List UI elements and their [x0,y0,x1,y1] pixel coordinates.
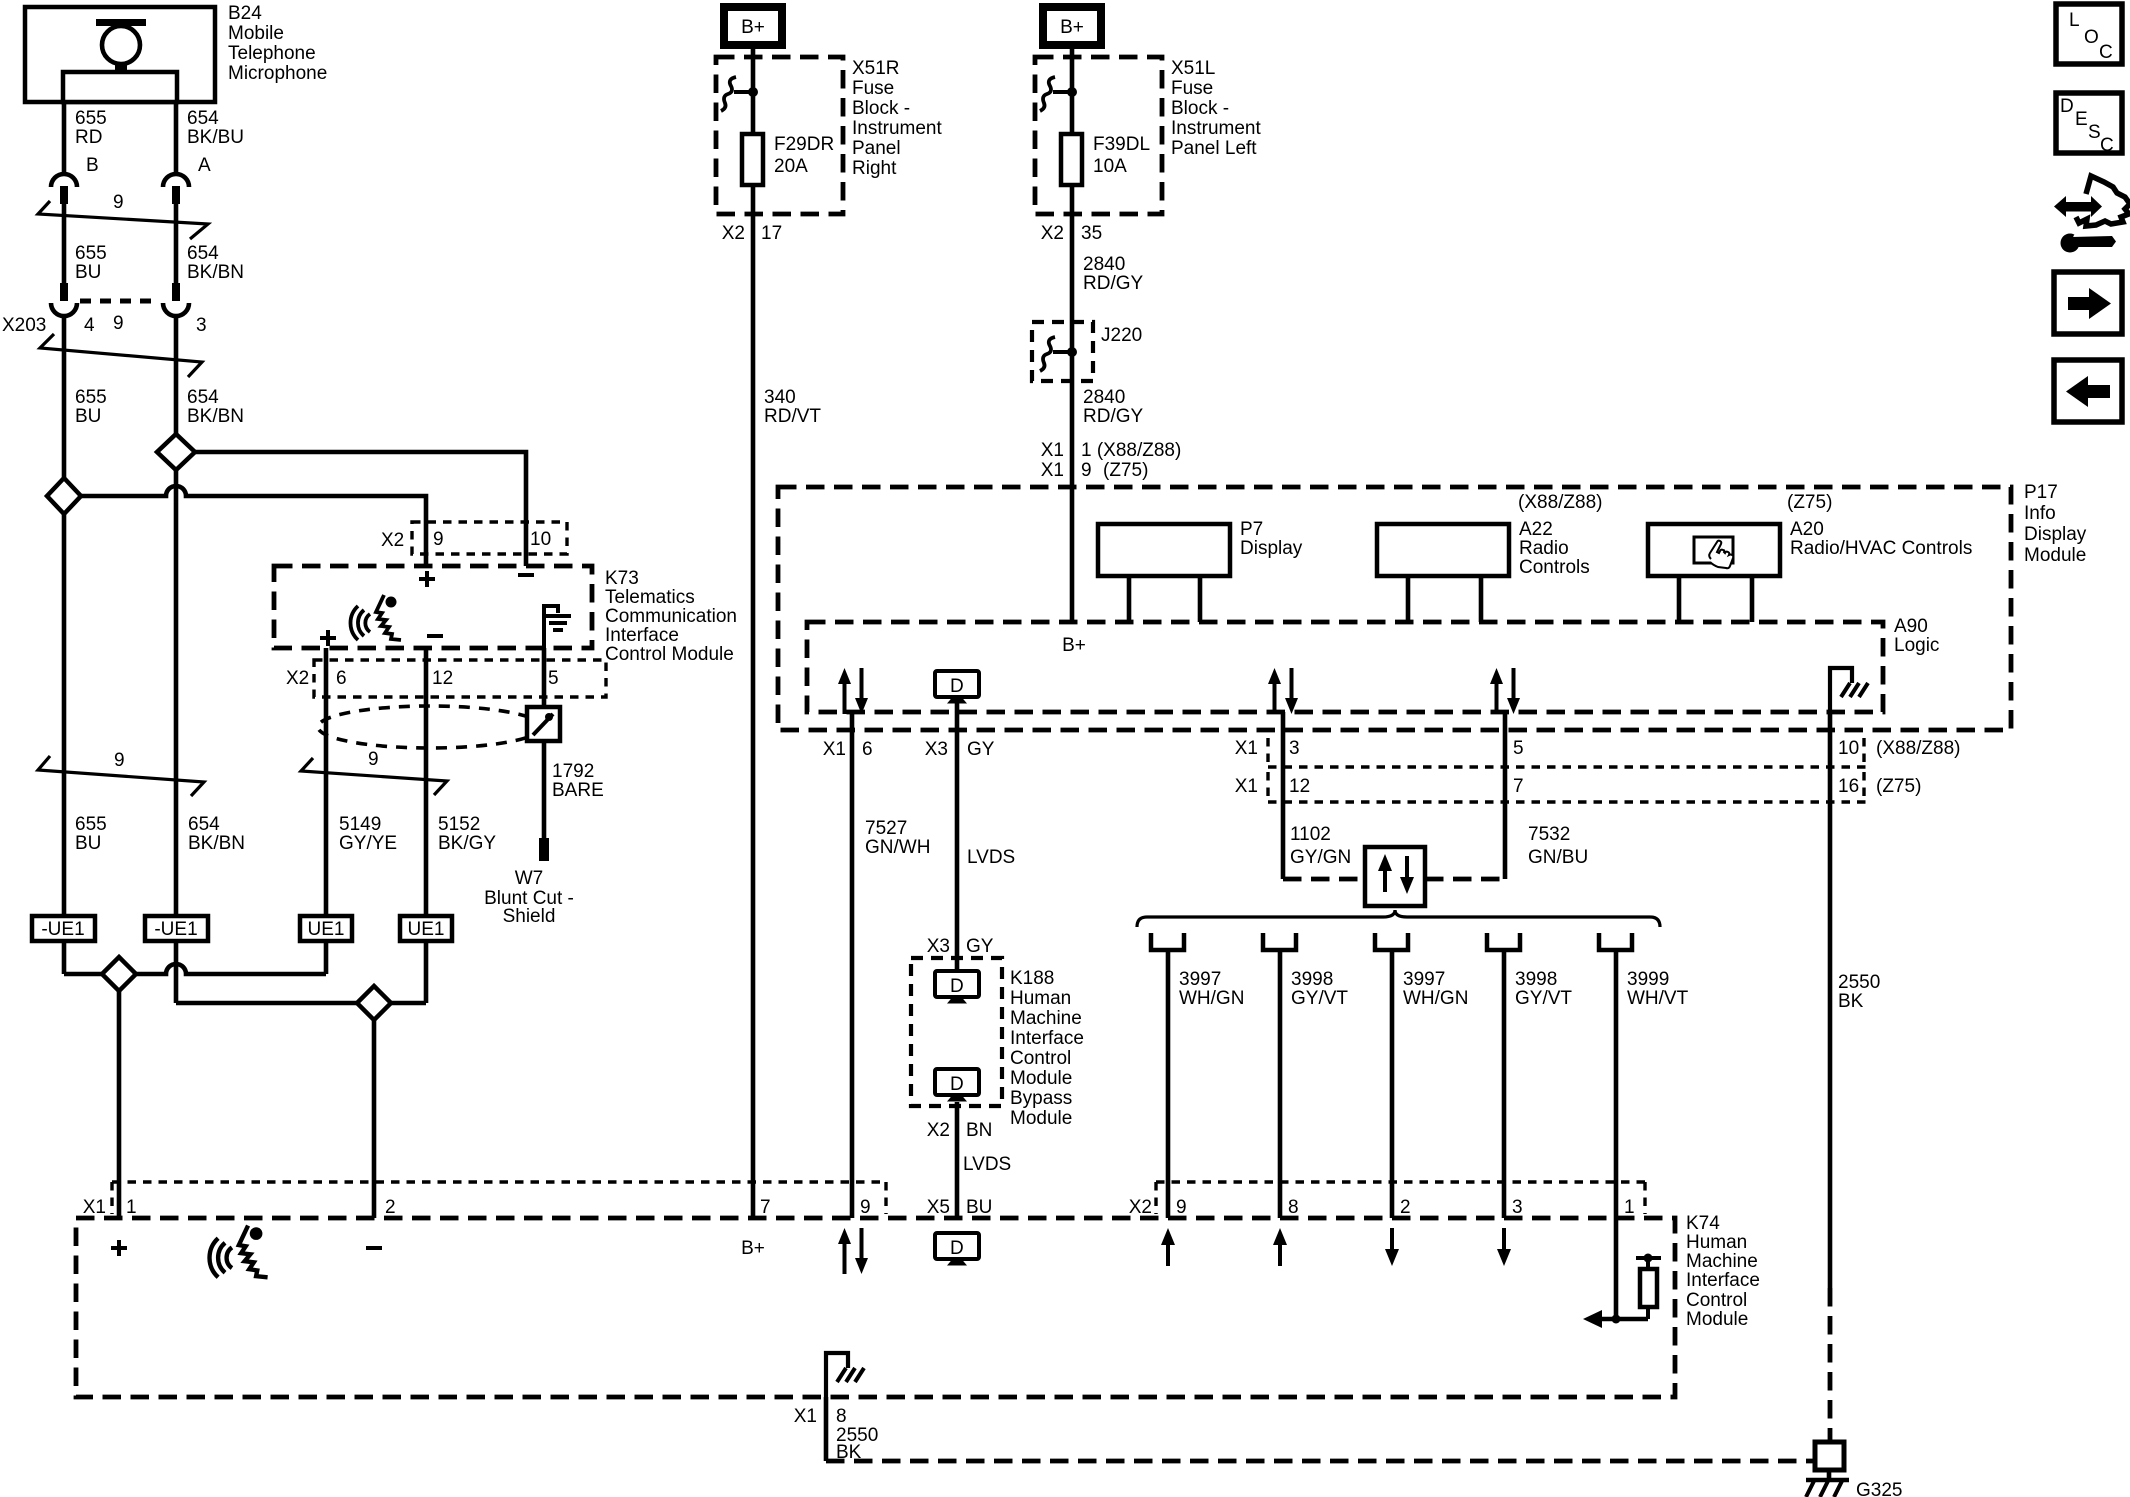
svg-text:Radio: Radio [1519,538,1569,559]
svg-text:BK/GY: BK/GY [438,833,496,854]
svg-text:Panel: Panel [852,138,901,159]
svg-text:X51L: X51L [1171,58,1215,79]
svg-text:654: 654 [187,243,219,264]
svg-text:Logic: Logic [1894,635,1939,656]
svg-text:O: O [2084,27,2099,48]
svg-text:9: 9 [433,529,444,550]
svg-text:WH/GN: WH/GN [1179,988,1244,1009]
svg-text:9: 9 [368,749,379,770]
svg-text:K188: K188 [1010,968,1054,989]
svg-text:B24: B24 [228,3,262,24]
svg-text:X3: X3 [925,739,948,760]
svg-text:X2: X2 [286,668,309,689]
svg-text:GN/WH: GN/WH [865,837,930,858]
svg-text:BU: BU [75,406,101,427]
svg-text:X51R: X51R [852,58,900,79]
svg-text:6: 6 [336,668,347,689]
svg-text:12: 12 [1289,776,1310,797]
svg-text:1792: 1792 [552,761,594,782]
svg-text:Controls: Controls [1519,557,1590,578]
svg-text:Telematics: Telematics [605,587,695,608]
svg-text:Microphone: Microphone [228,63,327,84]
svg-text:654: 654 [187,387,219,408]
svg-text:17: 17 [761,223,782,244]
svg-text:1: 1 [1624,1197,1635,1218]
svg-text:5152: 5152 [438,814,480,835]
svg-text:Module: Module [1010,1108,1072,1129]
svg-text:UE1: UE1 [408,919,445,940]
svg-text:F29DR: F29DR [774,134,834,155]
svg-text:Bypass: Bypass [1010,1088,1072,1109]
svg-text:Human: Human [1010,988,1071,1009]
svg-text:BARE: BARE [552,780,604,801]
svg-text:2550: 2550 [1838,972,1880,993]
svg-text:3997: 3997 [1179,969,1221,990]
svg-text:X1: X1 [1041,440,1064,461]
svg-text:LVDS: LVDS [963,1154,1011,1175]
svg-text:GY/GN: GY/GN [1290,847,1351,868]
svg-text:P17: P17 [2024,482,2058,503]
svg-text:A20: A20 [1790,519,1824,540]
svg-text:BK/BU: BK/BU [187,127,244,148]
svg-text:-UE1: -UE1 [41,919,84,940]
svg-text:K74: K74 [1686,1213,1720,1234]
svg-text:10: 10 [530,529,551,550]
svg-text:F39DL: F39DL [1093,134,1150,155]
svg-text:9: 9 [113,313,124,334]
svg-text:X2: X2 [722,223,745,244]
svg-text:20A: 20A [774,156,808,177]
svg-text:RD/GY: RD/GY [1083,406,1144,427]
svg-text:X3: X3 [927,936,950,957]
svg-text:5: 5 [548,668,559,689]
svg-text:Control: Control [1686,1290,1747,1311]
svg-text:RD/GY: RD/GY [1083,273,1144,294]
svg-text:Human: Human [1686,1232,1747,1253]
svg-text:655: 655 [75,243,107,264]
svg-text:7: 7 [1513,776,1524,797]
svg-text:(X88/Z88): (X88/Z88) [1876,738,1960,759]
svg-text:S: S [2088,122,2101,143]
svg-text:BK: BK [836,1442,862,1463]
svg-text:Block -: Block - [852,98,910,119]
svg-text:B: B [86,155,99,176]
svg-text:4: 4 [84,315,95,336]
svg-text:BK/BN: BK/BN [187,262,244,283]
svg-text:L: L [2069,10,2080,31]
svg-text:BU: BU [75,833,101,854]
svg-text:Fuse: Fuse [852,78,894,99]
svg-text:Machine: Machine [1686,1251,1758,1272]
svg-text:X5: X5 [927,1197,950,1218]
svg-text:3998: 3998 [1515,969,1557,990]
svg-text:BU: BU [966,1197,992,1218]
svg-text:LVDS: LVDS [967,847,1015,868]
svg-text:3999: 3999 [1627,969,1669,990]
svg-text:B+: B+ [741,1238,765,1259]
svg-text:1 (X88/Z88): 1 (X88/Z88) [1081,440,1181,461]
svg-text:655: 655 [75,387,107,408]
svg-text:X1: X1 [1235,738,1258,759]
svg-text:X2: X2 [927,1120,950,1141]
svg-text:35: 35 [1081,223,1102,244]
svg-text:Mobile: Mobile [228,23,284,44]
svg-text:RD: RD [75,127,102,148]
svg-text:2840: 2840 [1083,254,1125,275]
svg-text:Fuse: Fuse [1171,78,1213,99]
svg-text:3: 3 [1512,1197,1523,1218]
svg-text:10A: 10A [1093,156,1127,177]
svg-text:Telephone: Telephone [228,43,316,64]
svg-text:P7: P7 [1240,519,1263,540]
svg-text:12: 12 [432,668,453,689]
svg-text:Instrument: Instrument [852,118,942,139]
svg-text:A90: A90 [1894,616,1928,637]
svg-text:K73: K73 [605,568,639,589]
svg-text:X1: X1 [794,1406,817,1427]
svg-text:8: 8 [836,1406,847,1427]
svg-text:5: 5 [1513,738,1524,759]
svg-text:RD/VT: RD/VT [764,406,821,427]
svg-text:655: 655 [75,814,107,835]
svg-text:Right: Right [852,158,897,179]
svg-text:654: 654 [187,108,219,129]
svg-text:BK/BN: BK/BN [188,833,245,854]
svg-text:X2: X2 [381,530,404,551]
svg-text:GY: GY [967,739,995,760]
svg-text:2840: 2840 [1083,387,1125,408]
svg-text:Interface: Interface [1010,1028,1084,1049]
svg-text:W7: W7 [515,868,544,889]
svg-text:7: 7 [760,1197,771,1218]
svg-text:B+: B+ [1060,17,1084,38]
svg-text:X1: X1 [1235,776,1258,797]
svg-text:Machine: Machine [1010,1008,1082,1029]
svg-text:X1: X1 [1041,460,1064,481]
svg-text:Control: Control [1010,1048,1071,1069]
svg-text:9: 9 [1081,460,1092,481]
svg-text:Display: Display [1240,538,1303,559]
svg-text:GY/VT: GY/VT [1291,988,1348,1009]
svg-text:BU: BU [75,262,101,283]
svg-text:9: 9 [860,1197,871,1218]
svg-text:Display: Display [2024,524,2087,545]
svg-text:C: C [2099,42,2113,63]
svg-text:X2: X2 [1041,223,1064,244]
svg-text:BK: BK [1838,991,1864,1012]
svg-text:Interface: Interface [605,625,679,646]
svg-text:2: 2 [1400,1197,1411,1218]
svg-text:9: 9 [113,192,124,213]
svg-text:Info: Info [2024,503,2056,524]
svg-text:7532: 7532 [1528,824,1570,845]
svg-text:3997: 3997 [1403,969,1445,990]
svg-text:(Z75): (Z75) [1787,492,1832,513]
svg-text:Module: Module [1010,1068,1072,1089]
svg-text:(Z75): (Z75) [1876,776,1921,797]
svg-text:8: 8 [1288,1197,1299,1218]
svg-text:1102: 1102 [1290,824,1331,845]
svg-text:X1: X1 [83,1197,106,1218]
svg-text:A22: A22 [1519,519,1553,540]
svg-text:3: 3 [1289,738,1300,759]
svg-text:UE1: UE1 [308,919,345,940]
svg-text:9: 9 [114,750,125,771]
svg-text:(Z75): (Z75) [1103,460,1148,481]
svg-text:B+: B+ [741,17,765,38]
svg-text:Module: Module [1686,1309,1748,1330]
svg-text:655: 655 [75,108,107,129]
svg-text:GY/VT: GY/VT [1515,988,1572,1009]
svg-text:16: 16 [1838,776,1859,797]
svg-text:Instrument: Instrument [1171,118,1261,139]
svg-text:340: 340 [764,387,796,408]
svg-text:6: 6 [862,739,873,760]
svg-text:WH/VT: WH/VT [1627,988,1689,1009]
svg-text:Radio/HVAC Controls: Radio/HVAC Controls [1790,538,1972,559]
svg-text:Block -: Block - [1171,98,1229,119]
svg-text:1: 1 [126,1197,137,1218]
svg-text:GN/BU: GN/BU [1528,847,1588,868]
svg-text:G325: G325 [1856,1480,1902,1497]
svg-text:(X88/Z88): (X88/Z88) [1518,492,1602,513]
svg-text:X2: X2 [1129,1197,1152,1218]
svg-text:B+: B+ [1062,635,1086,656]
svg-text:9: 9 [1176,1197,1187,1218]
svg-text:3: 3 [196,315,207,336]
svg-text:GY/YE: GY/YE [339,833,397,854]
svg-text:X203: X203 [2,315,46,336]
svg-text:654: 654 [188,814,220,835]
svg-text:J220: J220 [1101,325,1142,346]
svg-text:Control Module: Control Module [605,644,734,665]
svg-text:WH/GN: WH/GN [1403,988,1468,1009]
svg-text:Shield: Shield [503,906,556,927]
svg-text:Communication: Communication [605,606,737,627]
svg-text:5149: 5149 [339,814,381,835]
svg-text:Module: Module [2024,545,2086,566]
svg-text:Interface: Interface [1686,1270,1760,1291]
svg-text:3998: 3998 [1291,969,1333,990]
svg-text:BN: BN [966,1120,992,1141]
svg-text:BK/BN: BK/BN [187,406,244,427]
svg-text:X1: X1 [823,739,846,760]
svg-text:7527: 7527 [865,818,907,839]
svg-text:-UE1: -UE1 [154,919,197,940]
svg-text:GY: GY [966,936,994,957]
svg-text:10: 10 [1838,738,1859,759]
svg-text:E: E [2075,109,2088,130]
svg-text:D: D [2060,96,2074,117]
svg-text:A: A [198,155,211,176]
svg-text:C: C [2100,135,2114,156]
svg-text:2: 2 [385,1197,396,1218]
svg-text:Panel Left: Panel Left [1171,138,1257,159]
